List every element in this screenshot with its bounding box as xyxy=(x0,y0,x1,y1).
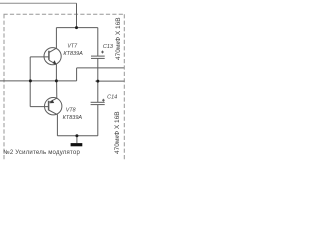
svg-text:VT8: VT8 xyxy=(66,107,76,113)
svg-text:C14: C14 xyxy=(107,95,117,101)
svg-text:КТ839А: КТ839А xyxy=(63,51,83,57)
svg-text:C13: C13 xyxy=(103,44,114,50)
svg-text:КТ839А: КТ839А xyxy=(63,115,83,121)
svg-text:№2 Усилитель модулятор: №2 Усилитель модулятор xyxy=(3,149,80,156)
svg-text:470мкФ Х 16В: 470мкФ Х 16В xyxy=(114,111,121,154)
svg-text:VT7: VT7 xyxy=(67,44,78,50)
svg-text:470мкФ Х 16В: 470мкФ Х 16В xyxy=(115,17,122,60)
